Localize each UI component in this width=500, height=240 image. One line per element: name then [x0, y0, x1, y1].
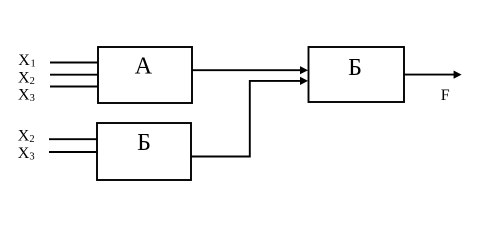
svg-text:3: 3 [30, 93, 35, 104]
wire A output to block B2 [192, 66, 308, 74]
wire F output [404, 71, 462, 79]
block B2 (right) [309, 47, 405, 102]
svg-text:1: 1 [31, 58, 36, 69]
svg-text:X: X [18, 145, 30, 162]
wire B1 output to block B2 [191, 77, 308, 157]
label X2 [18, 70, 35, 88]
wire X3 input to block A [50, 86, 98, 88]
svg-text:X: X [18, 128, 30, 145]
label X1 [18, 52, 36, 70]
wire X2 input to block A [50, 74, 98, 76]
svg-text:А: А [135, 54, 153, 80]
svg-text:2: 2 [29, 134, 34, 145]
label X2 (lower) [18, 128, 35, 146]
wire X3 input to block B1 [49, 151, 97, 153]
label X3 [18, 86, 35, 104]
wire X2 input to block B1 [49, 138, 97, 140]
svg-text:X: X [18, 86, 30, 103]
wire X1 input to block A [50, 62, 98, 64]
block B1 (lower left) [97, 123, 191, 180]
svg-text:X: X [18, 70, 30, 87]
block A [98, 47, 192, 103]
svg-text:3: 3 [29, 151, 34, 162]
svg-text:Б: Б [348, 55, 362, 81]
svg-text:2: 2 [30, 76, 35, 87]
label X3 (lower) [18, 145, 35, 163]
svg-text:F: F [441, 87, 450, 104]
svg-text:Б: Б [137, 130, 151, 156]
svg-text:X: X [18, 52, 30, 69]
